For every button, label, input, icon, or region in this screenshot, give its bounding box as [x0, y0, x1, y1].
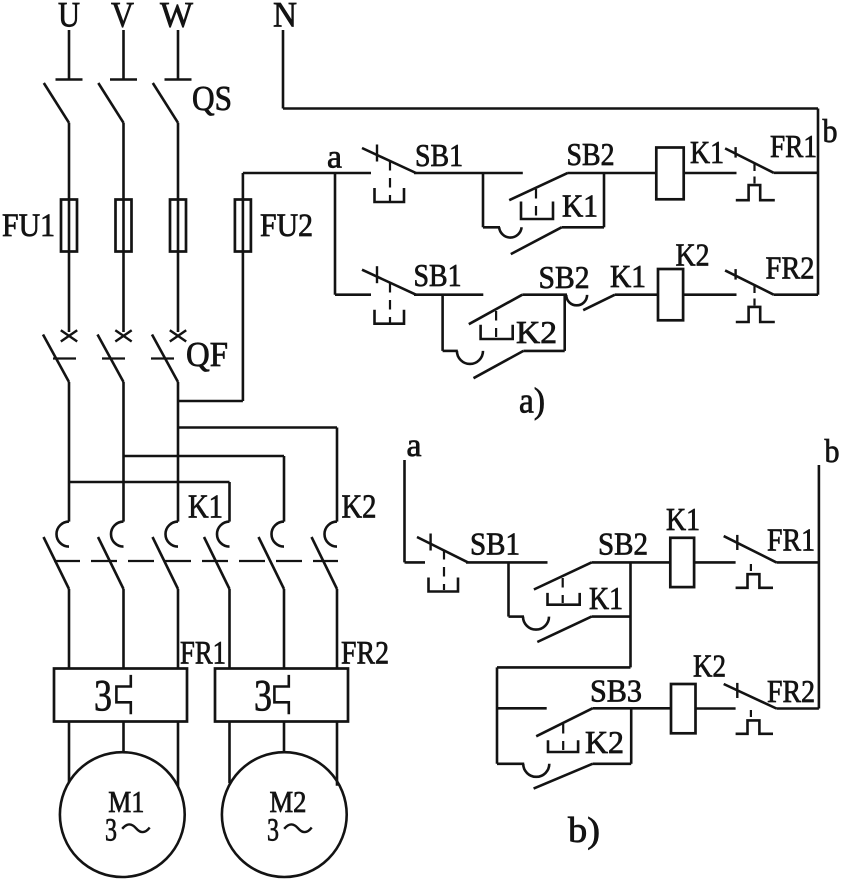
- svg-text:K2: K2: [342, 489, 377, 526]
- svg-text:b: b: [825, 434, 840, 470]
- wire W supply stub: [177, 30, 180, 80]
- wire FR2 to M2 left: [228, 722, 231, 784]
- wire a to SB1 (rung 1): [335, 172, 371, 175]
- wire V to QF: [122, 123, 125, 332]
- svg-text:U: U: [58, 0, 80, 35]
- contact K2 auxiliary NO self-hold (b rung 2): [523, 764, 592, 789]
- wire contact 4 to overload box: [228, 589, 231, 669]
- wire a to SB1 (b rung 1): [405, 561, 426, 564]
- svg-text:K1: K1: [188, 489, 223, 526]
- wire coil K1 to FR1 (b rung 1): [694, 561, 736, 564]
- svg-text:K1: K1: [690, 134, 724, 170]
- svg-text:K1: K1: [610, 258, 646, 294]
- wire V phase to K1 pole 2: [122, 382, 125, 522]
- wire V supply stub: [122, 30, 125, 80]
- pushbutton SB1 NC (a rung 1): [362, 145, 416, 203]
- wire FR1 to b rail (rung 1): [774, 172, 818, 175]
- wire parallel branch left drop (a rung 1): [482, 173, 485, 227]
- svg-text:K2: K2: [585, 724, 624, 760]
- breaker QF pole 3: [152, 330, 186, 382]
- svg-text:a: a: [407, 428, 422, 464]
- overload relay FR2 box: [215, 669, 348, 722]
- svg-text:K2: K2: [516, 314, 557, 350]
- wire FR1 to M1 centre: [122, 722, 125, 753]
- contact FR2 NC thermal (a rung 2): [725, 269, 775, 322]
- wire K1 interlock to coil K2 (rung 2): [615, 293, 658, 296]
- contactor K2 main contact 3: [312, 522, 338, 589]
- wire K2 pole 6 drop: [336, 428, 339, 522]
- wire contact 5 to overload box: [283, 589, 286, 669]
- contact FR1 NC thermal (b rung 1): [724, 535, 777, 588]
- wire N vertical: [282, 30, 285, 109]
- contactor linkage (dashed): [54, 560, 338, 562]
- wire parallel branch left drop (b rung 1): [507, 562, 510, 616]
- wire FR1 to M1 left: [68, 722, 71, 783]
- svg-text:FR1: FR1: [180, 636, 226, 672]
- contactor K1 main contact 2: [98, 522, 124, 589]
- svg-text:K1: K1: [562, 188, 598, 224]
- motor M2: [222, 752, 347, 877]
- wire parallel branch right rise (b rung 2): [630, 708, 633, 764]
- svg-text:b: b: [823, 114, 838, 150]
- svg-text:3: 3: [254, 671, 272, 720]
- svg-text:FU2: FU2: [260, 208, 313, 244]
- switch QS pole 1 (U): [44, 80, 83, 123]
- coil K2 (b rung 2): [671, 684, 696, 733]
- coil K2 (a rung 2): [658, 269, 683, 320]
- switch QS pole 3 (W): [153, 80, 192, 123]
- wire parallel branch left drop (a rung 2): [441, 295, 444, 351]
- svg-text:V: V: [111, 0, 134, 35]
- wire contact 6 to overload box: [336, 589, 339, 669]
- fuse FU1 element 3: [170, 200, 186, 252]
- svg-text:K2: K2: [676, 237, 710, 273]
- wire SB3 to coil K2 (b rung 2): [593, 707, 672, 710]
- wire SB1 to SB2 (rung 2): [414, 293, 483, 296]
- pushbutton SB1 NC (a rung 2): [362, 266, 416, 324]
- svg-text:FR2: FR2: [767, 673, 815, 709]
- contact K2 auxiliary NO self-hold (a rung 2): [457, 351, 524, 378]
- contactor K1 main contact 3: [153, 522, 179, 589]
- svg-text:N: N: [273, 0, 297, 35]
- svg-text:SB1: SB1: [470, 526, 520, 562]
- wire feed to SB3 (b rung 2): [497, 707, 547, 710]
- svg-text:SB3: SB3: [590, 673, 642, 709]
- fuse FU1 element 2: [116, 200, 132, 252]
- svg-text:SB1: SB1: [414, 257, 462, 293]
- contact K1 NO sequence interlock (a rung 2): [566, 295, 615, 311]
- wire SB1 to SB2 (b rung 1): [466, 561, 548, 564]
- wire FR1 to b rail (b rung 1): [776, 561, 819, 564]
- wire contact 2 to overload box: [122, 589, 125, 669]
- pushbutton SB3 NO (b rung 2): [536, 708, 592, 752]
- svg-text:FR1: FR1: [767, 522, 815, 558]
- contactor K2 main contact 2: [259, 522, 285, 589]
- wire parallel branch bottom right (a rung 2): [523, 350, 564, 353]
- wire parallel branch right rise (a rung 1): [603, 173, 606, 227]
- breaker QF linkage (dashed): [53, 357, 176, 359]
- wire W to QF: [177, 123, 180, 332]
- wire parallel branch bottom left (a rung 2): [443, 350, 458, 353]
- pushbutton SB1 NC (b rung 1): [417, 534, 468, 592]
- svg-text:a): a): [519, 381, 545, 421]
- overload relay FR1 heater element: [116, 675, 130, 714]
- wire U phase to K1 pole 1: [68, 382, 71, 522]
- svg-text:FR2: FR2: [341, 636, 389, 672]
- pushbutton SB2 NO (a rung 1): [509, 173, 568, 219]
- wire W phase to K1 pole 3: [177, 382, 180, 522]
- wire SB2 to K1 interlock (rung 2): [522, 293, 567, 296]
- overload relay FR2 heater element: [274, 675, 288, 714]
- wire SB2 to coil K1 (b rung 1): [592, 561, 671, 564]
- wire K2 pole 5 drop: [283, 456, 286, 522]
- wire coil K2 to FR2 (rung 2): [683, 293, 736, 296]
- svg-text:a: a: [327, 140, 342, 176]
- wire K2 branch feed horizontal (b): [497, 666, 631, 669]
- svg-text:3: 3: [105, 813, 117, 849]
- pushbutton SB2 NO (a rung 2): [469, 295, 523, 339]
- wire N horizontal rail: [283, 107, 818, 110]
- svg-text:FR1: FR1: [770, 128, 817, 164]
- wire coil K1 to FR1 (rung 1): [684, 172, 737, 175]
- svg-text:FR2: FR2: [766, 250, 815, 286]
- wire branch junction drop (b rung 1): [629, 562, 632, 667]
- svg-text:SB2: SB2: [598, 526, 648, 562]
- wire a to SB1 (rung 2): [335, 293, 371, 296]
- wire parallel branch bottom right (b rung 1): [592, 615, 631, 618]
- contactor K1 main contact 1: [44, 522, 70, 589]
- breaker QF pole 1: [43, 330, 77, 382]
- wire parallel branch bottom right (a rung 1): [562, 226, 604, 229]
- switch QS pole 2 (V): [98, 80, 137, 123]
- svg-text:3: 3: [94, 671, 112, 720]
- svg-text:SB2: SB2: [567, 136, 615, 172]
- wire parallel branch bottom right (b rung 2): [593, 762, 632, 765]
- contactor K2 main contact 1: [204, 522, 230, 589]
- svg-text:SB1: SB1: [415, 137, 463, 173]
- wire FR1 to M1 right: [177, 722, 180, 787]
- fuse FU2: [235, 200, 251, 252]
- fuse FU1 element 1: [61, 200, 77, 252]
- motor M1: [60, 752, 185, 877]
- wire a rail (circuit a): [334, 173, 337, 295]
- wire b rail (circuit a): [817, 109, 820, 295]
- wire parallel branch bottom left (a rung 1): [483, 226, 500, 229]
- wire SB1 to SB2 (rung 1): [414, 172, 523, 175]
- wire parallel branch bottom left (b rung 2): [497, 762, 524, 765]
- wire FU2 vertical to node a level: [242, 173, 245, 401]
- wire branch U to K2 pole 4 (horizontal): [69, 481, 230, 484]
- wire branch W to K2 pole 6 (horizontal): [178, 426, 337, 429]
- coil K1 (a rung 1): [656, 148, 683, 200]
- wire branch V to K2 pole 5 (horizontal): [124, 455, 285, 458]
- label M2 3-phase: [267, 813, 312, 849]
- wire K2 pole 4 drop: [228, 482, 231, 522]
- svg-text:b): b): [568, 810, 600, 850]
- svg-text:W: W: [160, 0, 193, 35]
- breaker QF pole 2: [98, 330, 132, 382]
- wire coil K2 to FR2 (b rung 2): [696, 707, 736, 710]
- svg-text:SB2: SB2: [539, 259, 590, 295]
- contact FR1 NC thermal (a rung 1): [725, 147, 775, 200]
- svg-text:K1: K1: [589, 580, 623, 616]
- contact K1 auxiliary NO self-hold (a rung 1): [499, 227, 561, 254]
- wire SB2 to coil K1 (rung 1): [568, 172, 656, 175]
- wire FR2 to M2 centre: [283, 722, 286, 753]
- wire U supply stub: [68, 30, 71, 80]
- svg-text:FU1: FU1: [2, 208, 55, 244]
- wire W to FU2 tap (horizontal): [178, 400, 243, 403]
- wire FR2 to b rail (b rung 2): [776, 707, 819, 710]
- wire K2 branch feed drop (b): [496, 667, 499, 763]
- svg-text:QS: QS: [192, 79, 232, 118]
- wire FU2 to node a: [243, 172, 335, 175]
- overload relay FR1 box: [54, 669, 187, 722]
- wire FR2 to b rail (rung 2): [774, 293, 818, 296]
- svg-text:K2: K2: [693, 648, 726, 684]
- wire b rail (circuit b): [818, 465, 821, 709]
- wire contact 1 to overload box: [68, 589, 71, 669]
- wire parallel branch right rise (a rung 2): [563, 295, 566, 351]
- wire U to QF: [68, 123, 71, 332]
- label M1 3-phase: [105, 813, 150, 849]
- wire a rail (circuit b): [403, 460, 406, 562]
- wire contact 3 to overload box: [177, 589, 180, 669]
- svg-text:K1: K1: [666, 501, 700, 537]
- wire parallel branch bottom left (b rung 1): [509, 615, 525, 618]
- svg-text:QF: QF: [186, 335, 228, 374]
- svg-text:3: 3: [267, 813, 279, 849]
- contact K1 auxiliary NO self-hold (b rung 1): [523, 617, 592, 642]
- pushbutton SB2 NO (b rung 1): [534, 562, 592, 604]
- contact FR2 NC thermal (b rung 2): [724, 683, 777, 734]
- wire FR2 to M2 right: [336, 722, 339, 786]
- coil K1 (b rung 1): [670, 538, 694, 587]
